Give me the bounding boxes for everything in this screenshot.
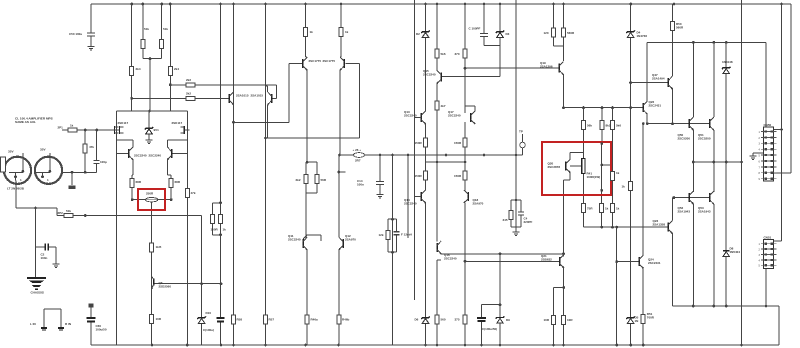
ground xyxy=(53,263,60,265)
wire R38 column xyxy=(583,108,585,159)
wire Q10 collector down xyxy=(339,70,341,155)
wire wiper down to Q6 xyxy=(151,202,153,284)
junction on V- rail xyxy=(629,344,632,347)
wire R42 column xyxy=(583,174,585,228)
node xyxy=(671,122,674,125)
wire Q12 column xyxy=(338,250,340,345)
wire diff box top xyxy=(117,110,188,112)
wire x425 lower xyxy=(425,203,427,345)
svg-text:120: 120 xyxy=(544,31,549,35)
wire Q50 emitter xyxy=(692,130,694,192)
node xyxy=(84,214,87,217)
wire R39 column xyxy=(601,108,603,144)
transistor Q19 2SA1296 xyxy=(558,64,560,73)
zener D9 xyxy=(496,316,504,319)
transistor Q5 2SC2240 xyxy=(171,149,173,158)
wire xyxy=(306,57,308,58)
svg-text:700R: 700R xyxy=(647,315,655,319)
wire CN51 down xyxy=(765,269,767,306)
resistor R18 1k xyxy=(219,214,223,223)
wire CN50 gnd stub xyxy=(753,152,763,154)
junction on V+ rail xyxy=(130,3,133,6)
svg-text:220PF: 220PF xyxy=(524,220,533,224)
svg-text:2SC2240: 2SC2240 xyxy=(448,113,461,117)
transistor Q4 2SC2240 xyxy=(128,149,130,158)
resistor R58 xyxy=(232,315,236,324)
svg-text:1k: 1k xyxy=(622,185,626,189)
svg-text:2SC5200: 2SC5200 xyxy=(698,136,711,140)
wire R5 column xyxy=(131,4,133,111)
node tail xyxy=(149,57,152,60)
node xyxy=(562,106,565,109)
node xyxy=(725,41,728,44)
zener D10 xyxy=(197,316,205,319)
resistor R45 xyxy=(611,204,615,213)
wire R44/45 column xyxy=(612,165,614,227)
resistor R57 xyxy=(264,315,268,324)
junction on V+ rail xyxy=(141,3,144,6)
wire to ground xyxy=(55,247,57,264)
node xyxy=(84,129,87,132)
svg-text:68R: 68R xyxy=(136,180,142,184)
svg-text:2SA1015: 2SA1015 xyxy=(236,94,249,98)
resistor R29 4k7 xyxy=(435,101,439,110)
node xyxy=(219,233,222,236)
wire Q8 emitter up xyxy=(267,86,269,92)
ground xyxy=(377,194,384,196)
capacitor C3 100p xyxy=(480,34,488,37)
transformer circle B1 xyxy=(4,157,31,184)
wire rejoin xyxy=(212,234,220,236)
svg-text:560R: 560R xyxy=(676,25,684,29)
resistor R33 xyxy=(463,171,467,180)
zener D5 xyxy=(626,316,634,319)
junction on V- rail xyxy=(464,344,467,347)
wire x437 mid xyxy=(436,83,438,242)
wire x741 long xyxy=(741,0,743,345)
svg-text:370: 370 xyxy=(455,52,460,56)
wire y162 xyxy=(426,161,466,163)
wire down xyxy=(392,252,394,345)
junction on V+ rail xyxy=(499,3,502,6)
wire xyxy=(752,153,754,156)
svg-text:150R: 150R xyxy=(415,141,423,145)
wire R3 column xyxy=(142,4,144,59)
wire x233 column xyxy=(233,4,235,345)
resistor R10 51k xyxy=(64,214,73,218)
wire C1 column xyxy=(96,130,98,172)
wire C60 column xyxy=(90,308,92,346)
svg-text:2SC2431: 2SC2431 xyxy=(648,261,661,265)
wire base feed y84.8 xyxy=(170,84,276,86)
resistor R28 xyxy=(435,49,439,58)
wire Q53 down xyxy=(713,204,715,306)
polarity box C60 xyxy=(89,304,94,308)
wire box top y42.4 xyxy=(647,41,766,43)
wire C50 stem xyxy=(90,4,92,47)
wire xyxy=(56,208,58,216)
wire R22 branch xyxy=(305,162,307,193)
wire rail right end down xyxy=(790,4,792,173)
wire R3/R4 join xyxy=(143,58,162,60)
zener D4 xyxy=(626,30,634,33)
node xyxy=(131,198,134,201)
svg-text:1k: 1k xyxy=(616,171,620,175)
junction on V+ rail xyxy=(483,3,486,6)
node xyxy=(642,122,645,125)
wire R37 column xyxy=(563,4,565,61)
node xyxy=(170,198,173,201)
resistor R15 xyxy=(150,243,154,252)
wire C16 column xyxy=(481,305,483,345)
wire Q20 emitter xyxy=(569,173,571,181)
node xyxy=(740,161,743,164)
wire Q23 emitter xyxy=(671,234,673,306)
wire branch xyxy=(482,304,501,306)
svg-text:2SC2240: 2SC2240 xyxy=(423,72,436,76)
wire to Q10 base xyxy=(346,63,360,65)
resistor R38 xyxy=(582,121,586,130)
transistor Q14 2SC2240 xyxy=(420,192,422,201)
transistor Q52 2SA1943 xyxy=(688,193,690,202)
wire bus left end up to C60 xyxy=(90,308,92,346)
node xyxy=(600,142,603,145)
wire Q21 emitter xyxy=(563,268,565,288)
svg-text:2SA1943: 2SA1943 xyxy=(678,209,691,213)
wire Q4 base xyxy=(117,152,129,154)
junction on V+ rail xyxy=(673,3,676,6)
svg-text:2SB632: 2SB632 xyxy=(541,257,552,261)
transistor Q24 2SC2431 xyxy=(638,257,640,266)
resistor R50 560R xyxy=(671,22,675,31)
svg-text:2SC2431: 2SC2431 xyxy=(649,103,662,107)
transistor Q50 2SC5200 xyxy=(688,119,690,128)
transistor Q15 2SC2240 xyxy=(440,73,442,82)
chassis ground xyxy=(27,277,46,279)
wire xyxy=(465,105,475,107)
wire Q47 base y82.6 xyxy=(631,82,669,84)
trimpot R13 250R xyxy=(145,198,158,202)
svg-text:+ 26 +: + 26 + xyxy=(353,148,362,152)
transistor Q9 2SC1775 xyxy=(302,59,304,68)
wire stub xyxy=(339,171,346,173)
node xyxy=(264,137,267,140)
svg-text:1N4736: 1N4736 xyxy=(637,34,648,38)
node xyxy=(391,218,394,221)
resistor R48 xyxy=(562,316,566,325)
transistor Q8 2SA1015 xyxy=(271,94,273,103)
connector CN50 xyxy=(764,127,774,181)
wire xyxy=(131,174,134,176)
wire tail feed xyxy=(149,59,151,111)
svg-text:35V: 35V xyxy=(40,148,46,152)
svg-text:12k: 12k xyxy=(379,233,384,237)
junction on V+ rail xyxy=(340,3,343,6)
svg-text:2SA970: 2SA970 xyxy=(345,237,356,241)
junction on V- rail xyxy=(264,344,267,347)
B2 internal pins xyxy=(49,153,51,171)
resistor R42 xyxy=(582,204,586,213)
svg-text:1k: 1k xyxy=(345,30,349,34)
svg-text:2SC1775: 2SC1775 xyxy=(323,59,336,63)
wire x781 column xyxy=(781,4,783,241)
wire xyxy=(320,235,322,241)
junction on V- rail xyxy=(562,344,565,347)
wire branch xyxy=(212,202,220,204)
wire CN50 right stub xyxy=(774,129,782,131)
wire Q50 collector xyxy=(692,42,694,117)
wire Q47 emitter down xyxy=(672,89,674,124)
svg-text:D3: D3 xyxy=(506,32,510,36)
node xyxy=(692,161,695,164)
transistor Q47 2SA1494 xyxy=(667,78,669,87)
resistor R16 10R xyxy=(150,315,154,324)
node xyxy=(445,154,448,157)
wire long x516 xyxy=(515,0,517,232)
wire to Q8 base xyxy=(272,97,277,99)
svg-text:560: 560 xyxy=(441,318,446,322)
wire Q47 collector up xyxy=(672,4,674,76)
power rail V+ top xyxy=(91,3,791,5)
resistor R35 xyxy=(509,211,513,220)
resistor R31 xyxy=(463,49,467,58)
svg-text:100n: 100n xyxy=(357,182,364,186)
wire branch R35 xyxy=(511,199,516,201)
wire B y138 xyxy=(266,137,360,139)
svg-text:150R: 150R xyxy=(211,228,219,232)
wire xyxy=(306,56,308,58)
junction on V- rail xyxy=(642,344,645,347)
svg-text:L IN: L IN xyxy=(30,322,36,326)
svg-text:2k2: 2k2 xyxy=(186,92,191,96)
svg-text:D9: D9 xyxy=(506,318,510,322)
node xyxy=(391,154,394,157)
zener D7 1N4148 xyxy=(722,67,730,70)
transformer circle B2 xyxy=(35,157,62,184)
wire Q6 collector out xyxy=(154,283,221,285)
wire to CN51 xyxy=(774,240,782,242)
resistor R39 xyxy=(600,121,604,130)
svg-text:R46a: R46a xyxy=(311,318,319,322)
node xyxy=(600,189,603,192)
resistor R27 xyxy=(424,171,428,180)
svg-text:TP: TP xyxy=(519,130,523,134)
svg-text:2SA1015: 2SA1015 xyxy=(251,94,264,98)
node xyxy=(95,129,98,132)
wire x220 column xyxy=(220,4,222,345)
resistor R36 xyxy=(552,28,556,37)
svg-text:375: 375 xyxy=(455,318,460,322)
resistor R49 xyxy=(629,182,633,191)
svg-text:CHASSIS: CHASSIS xyxy=(31,291,44,295)
wire y227 to Q23 base xyxy=(584,226,669,228)
node xyxy=(725,161,728,164)
wire Q22 emitter down xyxy=(646,114,648,124)
resistor R37 xyxy=(562,28,566,37)
wire Q24 base xyxy=(617,261,639,263)
svg-text:150R: 150R xyxy=(454,174,462,178)
junction on V+ rail xyxy=(232,3,235,6)
svg-text:1N4148: 1N4148 xyxy=(722,60,733,64)
wire Q19 collector down xyxy=(563,75,565,108)
svg-text:1k: 1k xyxy=(223,228,227,232)
svg-text:8k2: 8k2 xyxy=(606,124,611,128)
junction on V- rail xyxy=(424,344,427,347)
node xyxy=(780,128,783,131)
resistor R43 xyxy=(600,204,604,213)
wire Q51 emitter xyxy=(713,130,715,192)
wire stub x408 xyxy=(407,155,409,238)
junction on V+ rail xyxy=(436,3,439,6)
node xyxy=(713,161,716,164)
node xyxy=(337,171,340,174)
svg-text:250R: 250R xyxy=(146,192,154,196)
svg-text:2SC2240: 2SC2240 xyxy=(404,201,417,205)
wire y172 xyxy=(62,171,97,173)
svg-text:2P2: 2P2 xyxy=(58,211,64,215)
junction on V- rail xyxy=(740,344,743,347)
junction on V+ rail xyxy=(169,3,172,6)
wire Q17 collector xyxy=(474,106,476,111)
node xyxy=(600,226,603,229)
svg-text:SAME AS AXL: SAME AS AXL xyxy=(15,120,36,124)
svg-text:CN50: CN50 xyxy=(764,123,772,127)
wire lower base y197.6 xyxy=(674,197,710,199)
wire Q11 emitter column xyxy=(306,250,308,345)
jfet Q1 2SK117 xyxy=(114,126,116,134)
wire D3 column xyxy=(499,4,501,77)
wire R47 column xyxy=(553,288,555,346)
node xyxy=(713,41,716,44)
wire TP stub up xyxy=(522,134,524,142)
wire xyxy=(167,139,187,141)
transistor Q12 2SA970 xyxy=(342,239,344,248)
wire C4 branch xyxy=(520,200,522,227)
svg-text:2SC1775: 2SC1775 xyxy=(309,59,322,63)
svg-text:5k6: 5k6 xyxy=(616,124,621,128)
node y107.6 xyxy=(582,106,585,109)
wire up xyxy=(288,64,290,123)
svg-text:R46b: R46b xyxy=(342,318,350,322)
wire up xyxy=(359,64,361,138)
svg-text:51k: 51k xyxy=(163,27,168,31)
svg-text:345: 345 xyxy=(503,218,508,222)
node xyxy=(71,171,74,174)
capacitor C14 100n xyxy=(376,182,384,185)
svg-text:1k: 1k xyxy=(605,207,609,211)
wire base feed y98 xyxy=(132,97,230,99)
wire R35 branch xyxy=(510,200,512,227)
junction on V+ rail xyxy=(160,3,163,6)
inductor L1 xyxy=(354,153,365,158)
wire R12 column xyxy=(170,175,172,200)
transistor Q18 2SA970 xyxy=(467,192,469,201)
node xyxy=(220,282,223,285)
wire x630 column xyxy=(630,4,632,345)
wire Q14 base xyxy=(415,196,422,198)
wire down to Q21 xyxy=(563,180,565,256)
wire from B1 xyxy=(15,184,17,208)
node xyxy=(306,161,309,164)
resistor R20 1k xyxy=(304,28,308,37)
node tail join xyxy=(148,110,151,113)
wire x616 column xyxy=(616,227,618,345)
wire xyxy=(307,234,321,236)
ground xyxy=(513,231,520,233)
ground xyxy=(88,46,95,48)
ground xyxy=(750,155,757,157)
wire x601 column xyxy=(601,144,603,228)
wire xyxy=(564,179,571,181)
node xyxy=(464,67,467,70)
wire xyxy=(583,153,585,159)
node xyxy=(436,161,439,164)
transistor Q6 2SD2560 xyxy=(153,279,155,286)
wire to plate xyxy=(71,172,73,185)
svg-text:10R: 10R xyxy=(544,318,550,322)
wire y253.8 line1 xyxy=(441,253,563,255)
wire to CN50 xyxy=(765,42,767,127)
svg-text:2SK117: 2SK117 xyxy=(118,121,129,125)
transistor Q11 2SC2240 xyxy=(302,239,304,248)
wire to CN50 pin xyxy=(774,172,791,174)
transistor Q7 2SA1015 xyxy=(228,94,230,103)
svg-text:47k: 47k xyxy=(191,191,196,195)
wire y261.3 line2 xyxy=(465,260,560,262)
svg-text:2k4: 2k4 xyxy=(174,67,179,71)
svg-text:100R(1W): 100R(1W) xyxy=(587,175,601,179)
wire C2 row xyxy=(36,246,57,248)
junction on V- rail xyxy=(480,344,483,347)
svg-text:2SC2878: 2SC2878 xyxy=(548,165,561,169)
wire xyxy=(167,174,171,176)
wire join xyxy=(554,45,564,47)
svg-text:2SA1494: 2SA1494 xyxy=(652,76,665,80)
transistor Q17 2SC2240 xyxy=(470,113,472,122)
node xyxy=(130,97,133,100)
node xyxy=(673,196,676,199)
jfet Q2 2SK117 xyxy=(119,126,121,134)
resistor R47 xyxy=(552,316,556,325)
node xyxy=(499,252,502,255)
wire xyxy=(511,226,516,228)
wire Q23 collector xyxy=(671,198,673,221)
transistor Q53 2SA1943 xyxy=(709,193,711,202)
svg-text:R57: R57 xyxy=(269,318,275,322)
svg-text:100n: 100n xyxy=(41,256,48,260)
jfet Q3 2SK117 xyxy=(183,126,185,134)
transistor Q21 2SB632 xyxy=(559,257,561,266)
svg-text:C(100u/50): C(100u/50) xyxy=(482,327,497,331)
svg-text:2k2: 2k2 xyxy=(296,178,301,182)
wire Q4 collector up xyxy=(132,140,134,147)
svg-text:1k: 1k xyxy=(310,30,314,34)
wire branch C4 xyxy=(516,199,521,201)
svg-text:2R7: 2R7 xyxy=(355,159,361,163)
wire xyxy=(440,253,442,255)
transistor Q20 2SC2878 bias xyxy=(565,162,567,171)
connector CN51 xyxy=(764,240,774,269)
svg-text:1N: 1N xyxy=(635,319,639,323)
svg-text:68R: 68R xyxy=(175,180,181,184)
junction on V- rail xyxy=(552,344,555,347)
svg-text:75R: 75R xyxy=(587,207,593,211)
junction on V- rail xyxy=(436,344,439,347)
svg-text:2SA970: 2SA970 xyxy=(473,201,484,205)
capacitor C16 100u xyxy=(477,318,486,321)
svg-text:C(100u): C(100u) xyxy=(203,328,214,332)
wire R11 column xyxy=(131,175,133,200)
